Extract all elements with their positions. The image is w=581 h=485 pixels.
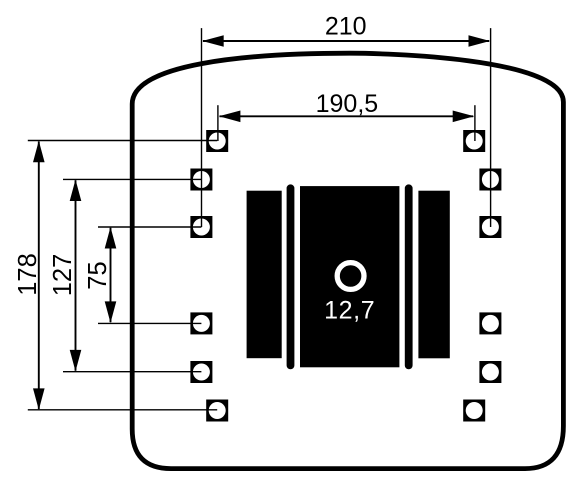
svg-text:178: 178 [14, 253, 42, 296]
svg-text:75: 75 [84, 261, 112, 289]
svg-text:127: 127 [49, 254, 77, 297]
svg-text:190,5: 190,5 [316, 90, 379, 118]
svg-text:210: 210 [325, 12, 367, 40]
svg-text:12,7: 12,7 [324, 297, 375, 325]
